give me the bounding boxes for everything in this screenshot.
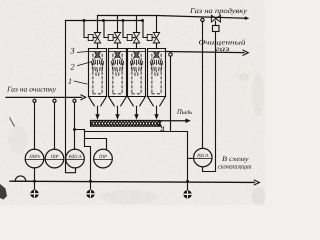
svg-text:ПIРА: ПIРА — [28, 154, 40, 160]
svg-text:1: 1 — [68, 76, 72, 86]
svg-text:Газ на продувку: Газ на продувку — [189, 7, 248, 15]
svg-text:Газ на очистку: Газ на очистку — [6, 86, 57, 94]
svg-text:РДСА: РДСА — [196, 153, 209, 159]
svg-text:В схему: В схему — [222, 156, 250, 163]
svg-text:ПIР: ПIР — [98, 154, 107, 160]
svg-text:газ: газ — [216, 45, 230, 53]
svg-text:ПIР: ПIР — [50, 154, 59, 160]
svg-text:сигнализации: сигнализации — [218, 164, 252, 171]
svg-text:РДIСА: РДIСА — [67, 154, 81, 160]
svg-text:Пыль: Пыль — [176, 108, 193, 116]
svg-text:3: 3 — [69, 45, 74, 55]
